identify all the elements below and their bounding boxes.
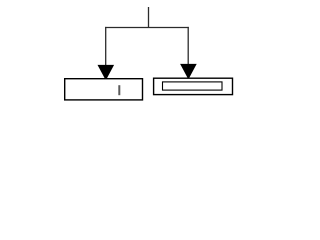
wire left drop — [105, 27, 107, 66]
right widget box (progress bar) — [154, 78, 233, 94]
wire horizontal branch — [105, 27, 189, 29]
text cursor bar — [118, 85, 120, 95]
left widget box (text entry) — [65, 79, 143, 100]
arrowhead right — [180, 64, 197, 80]
wire right drop — [187, 27, 189, 65]
wire stem (top vertical) — [148, 7, 150, 28]
progress bar inner track — [163, 82, 223, 90]
arrowhead left — [98, 65, 115, 81]
